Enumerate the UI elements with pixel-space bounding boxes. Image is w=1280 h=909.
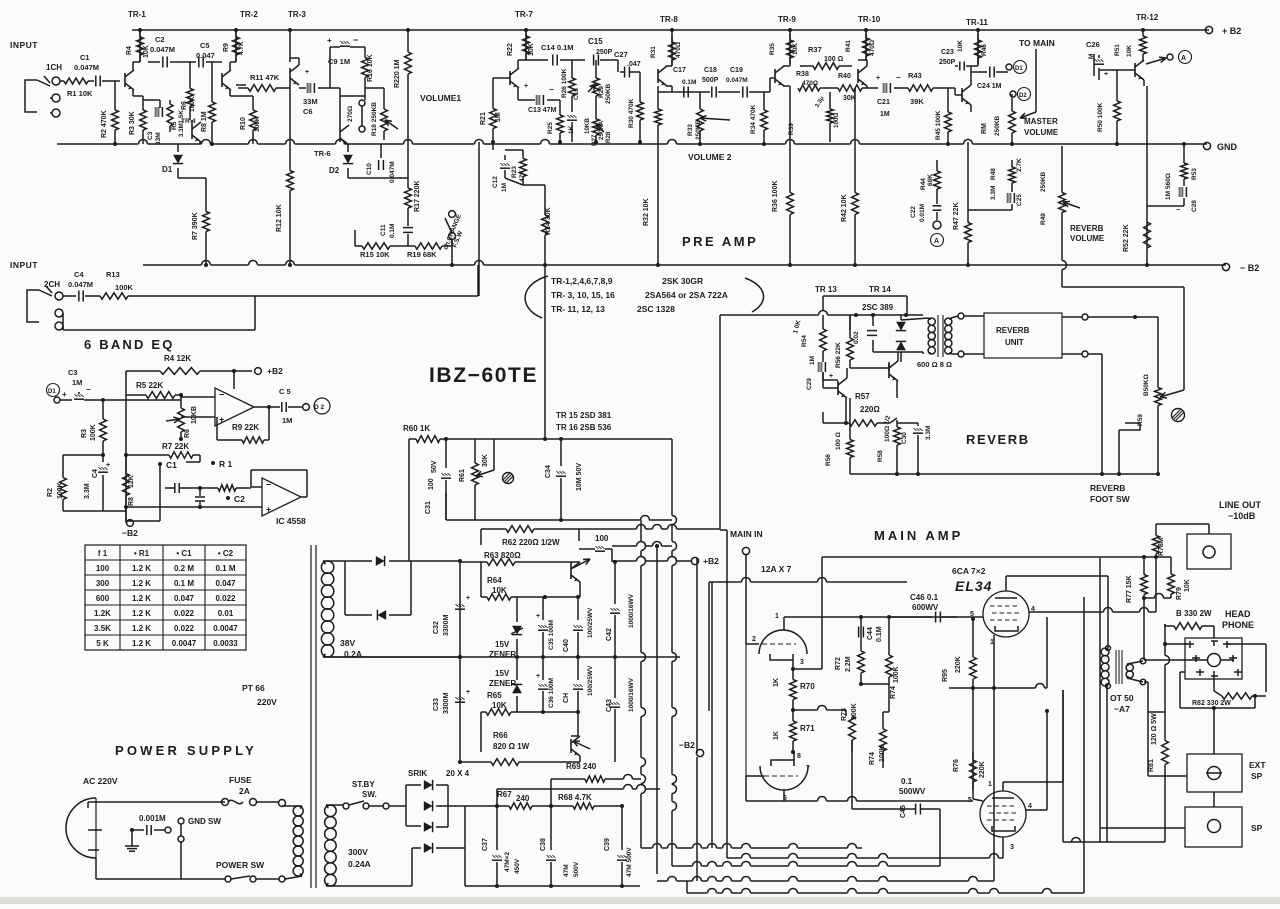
wire opamp2 feedback xyxy=(251,469,307,471)
svg-text:+: + xyxy=(466,595,470,602)
wire reverb top rail xyxy=(720,314,819,316)
svg-text:10K: 10K xyxy=(1184,579,1191,592)
svg-text:ZENER: ZENER xyxy=(489,679,516,688)
svg-text:R27: R27 xyxy=(591,134,598,146)
svg-text:R63 820Ω: R63 820Ω xyxy=(484,551,521,560)
svg-text:R42 10K: R42 10K xyxy=(841,194,848,222)
svg-text:15V: 15V xyxy=(495,640,510,649)
svg-text:1CH: 1CH xyxy=(46,63,62,72)
capacitor C14 0.1M xyxy=(526,59,548,61)
wire tr15 bottom rail xyxy=(446,519,640,521)
wire stby to diodes xyxy=(389,805,406,807)
capacitor C6 33M xyxy=(299,87,306,89)
svg-text:IBZ−60TE: IBZ−60TE xyxy=(429,364,538,387)
svg-text:R34 470K: R34 470K xyxy=(750,104,757,134)
svg-text:TR-10: TR-10 xyxy=(858,15,881,24)
svg-text:R15 10K: R15 10K xyxy=(360,250,390,259)
wire 12ax7a pin3 xyxy=(792,660,794,669)
capacitor C29 1M xyxy=(822,358,824,362)
svg-text:12K: 12K xyxy=(128,475,135,488)
svg-text:30K: 30K xyxy=(482,454,489,467)
resistor R38 470ohm xyxy=(789,86,791,92)
svg-text:C44: C44 xyxy=(867,627,874,640)
wire ot50 secondary right xyxy=(1144,659,1196,661)
resistor R34 470K xyxy=(763,92,765,98)
svg-text:+B2: +B2 xyxy=(703,556,719,566)
capacitor C9 1M xyxy=(330,46,340,48)
svg-text:VOLUME 2: VOLUME 2 xyxy=(688,152,732,162)
svg-text:120 Ω 5W: 120 Ω 5W xyxy=(1151,713,1158,745)
svg-text:POWER SUPPLY: POWER SUPPLY xyxy=(115,743,257,758)
svg-text:R6: R6 xyxy=(184,429,191,438)
label SP box xyxy=(1185,807,1242,847)
svg-text:D1: D1 xyxy=(48,389,56,395)
svg-text:SP: SP xyxy=(1251,771,1263,781)
svg-text:C25: C25 xyxy=(1016,194,1023,206)
resistor R4 10K xyxy=(139,30,141,37)
svg-text:C1: C1 xyxy=(166,460,177,470)
svg-text:220V: 220V xyxy=(257,697,277,707)
svg-text:EXT: EXT xyxy=(1249,760,1266,770)
svg-text:250KB: 250KB xyxy=(994,115,1001,136)
svg-text:UNIT: UNIT xyxy=(1005,338,1024,347)
wire main-in drop xyxy=(745,555,747,644)
svg-text:R220 1M: R220 1M xyxy=(394,59,401,88)
zener 15V #2 xyxy=(516,657,518,680)
svg-text:TR-12: TR-12 xyxy=(1136,13,1159,22)
wire x479 long vertical xyxy=(478,142,480,265)
svg-text:0.01M: 0.01M xyxy=(919,204,926,222)
svg-text:0.047: 0.047 xyxy=(215,579,236,588)
svg-text:R67: R67 xyxy=(497,790,512,799)
resistor R95 220K xyxy=(972,648,974,657)
svg-text:R82 330 2W: R82 330 2W xyxy=(1192,700,1231,707)
svg-text:INPUT: INPUT xyxy=(10,40,38,50)
wire R77 junction xyxy=(1144,597,1155,599)
svg-text:0.24A: 0.24A xyxy=(348,859,371,869)
svg-text:2.2M: 2.2M xyxy=(845,656,852,672)
svg-text:100 Ω: 100 Ω xyxy=(835,432,842,450)
svg-text:R44: R44 xyxy=(920,178,927,190)
svg-text:R95: R95 xyxy=(942,669,949,682)
svg-text:100 Ω: 100 Ω xyxy=(824,56,844,63)
svg-text:R68 4.7K: R68 4.7K xyxy=(558,793,592,802)
node R1 eq xyxy=(211,461,215,465)
svg-text:C21: C21 xyxy=(877,99,890,106)
resistor R48 3.3M xyxy=(1011,160,1013,167)
svg-text:33M: 33M xyxy=(303,97,318,106)
potentiometer R61 30K xyxy=(474,439,476,455)
diode rect2 xyxy=(344,561,346,615)
jack J2 xyxy=(27,290,39,322)
resistor R2 100K eq xyxy=(63,454,103,456)
svg-text:TR-7: TR-7 xyxy=(515,10,533,19)
terminal +B2 main xyxy=(691,557,698,564)
svg-text:R33: R33 xyxy=(687,124,694,136)
terminal -B2 main xyxy=(696,749,703,756)
svg-text:470Ω: 470Ω xyxy=(802,80,818,87)
svg-text:47M: 47M xyxy=(563,864,570,877)
terminal -B2 eq xyxy=(127,520,134,527)
svg-text:240: 240 xyxy=(516,794,530,803)
wire R60 left down xyxy=(408,439,410,561)
svg-text:+: + xyxy=(829,373,833,380)
svg-text:1.2 K: 1.2 K xyxy=(132,609,151,618)
wire 2ch ground xyxy=(62,313,64,330)
svg-text:R25: R25 xyxy=(547,122,554,134)
svg-text:R13: R13 xyxy=(106,270,120,279)
svg-text:+: + xyxy=(62,390,67,399)
wire sp2 feed xyxy=(1100,827,1185,829)
capacitor 0.02 xyxy=(872,315,874,326)
resistor R28 250KA pot xyxy=(595,108,597,112)
svg-text:TR 16 2SB 536: TR 16 2SB 536 xyxy=(556,423,612,432)
svg-text:R73: R73 xyxy=(841,708,848,721)
svg-text:D1: D1 xyxy=(1015,66,1023,72)
svg-text:• C2: • C2 xyxy=(218,549,234,558)
resistor R76 220K xyxy=(972,752,974,760)
terminal fuse right xyxy=(279,800,286,807)
line out box xyxy=(1187,534,1231,569)
capacitor C18 500P xyxy=(711,87,713,98)
switch ch.CHANGE FSW xyxy=(449,211,456,218)
svg-text:0.047M: 0.047M xyxy=(389,161,396,183)
wire sp feed xyxy=(1147,712,1149,776)
svg-text:1M: 1M xyxy=(72,378,82,387)
svg-text:C37: C37 xyxy=(482,838,489,851)
svg-text:10K: 10K xyxy=(1126,45,1133,57)
svg-text:HEAD: HEAD xyxy=(1225,609,1251,619)
resistor R52 22K xyxy=(1146,86,1148,265)
wire harness v5 xyxy=(711,582,713,848)
potentiometer R18 250KB xyxy=(364,88,366,100)
svg-text:R31: R31 xyxy=(650,46,657,58)
svg-text:−: − xyxy=(549,85,554,94)
tube 12AX7 upper half xyxy=(759,630,807,654)
svg-text:6CA 7×2: 6CA 7×2 xyxy=(952,566,986,576)
svg-text:R5: R5 xyxy=(171,121,178,130)
wire hp to ext sp xyxy=(1213,708,1215,754)
resistor R58 100 xyxy=(896,390,898,398)
resistor R25 1K xyxy=(559,100,561,106)
svg-text:ST.BY: ST.BY xyxy=(352,780,375,789)
resistor R3 30K xyxy=(142,96,144,110)
svg-text:R23: R23 xyxy=(511,166,518,178)
svg-text:100Ω: 100Ω xyxy=(884,426,891,442)
svg-text:C46 0.1: C46 0.1 xyxy=(910,593,939,602)
svg-text:D1: D1 xyxy=(162,165,173,174)
resistor R8 12K eq xyxy=(125,455,127,462)
svg-text:R56: R56 xyxy=(825,454,832,466)
resistor R78 1M xyxy=(1155,530,1157,536)
svg-text:3300M: 3300M xyxy=(443,692,450,714)
svg-text:0.0047: 0.0047 xyxy=(213,624,238,633)
capacitor C38 47M 500V xyxy=(550,806,552,850)
svg-text:−: − xyxy=(266,480,271,490)
svg-text:TR- 3, 10, 15, 16: TR- 3, 10, 15, 16 xyxy=(551,290,615,300)
svg-text:R3 30K: R3 30K xyxy=(129,111,136,135)
svg-text:0.001M: 0.001M xyxy=(139,814,166,823)
wire harness v3 xyxy=(656,546,658,874)
svg-text:REVERB: REVERB xyxy=(1070,224,1104,233)
svg-text:+: + xyxy=(1104,71,1108,78)
transistor TR14 sym xyxy=(888,364,890,378)
svg-text:R19 68K: R19 68K xyxy=(407,250,437,259)
wire reverb unit conns xyxy=(951,316,958,318)
svg-text:+: + xyxy=(536,613,540,620)
wire TR-8 col xyxy=(671,65,673,67)
svg-text:R9 22K: R9 22K xyxy=(232,423,259,432)
svg-text:C18: C18 xyxy=(704,67,717,74)
svg-text:0.047: 0.047 xyxy=(174,594,195,603)
svg-text:−10dB: −10dB xyxy=(1228,511,1256,521)
svg-text:R35: R35 xyxy=(769,43,776,55)
svg-text:1M: 1M xyxy=(501,183,508,192)
capacitor C2 xyxy=(139,29,141,31)
svg-text:.047: .047 xyxy=(627,61,641,68)
resistor R72 2.2M xyxy=(860,617,862,640)
svg-text:• R1: • R1 xyxy=(134,549,150,558)
capacitor C25 2.7K xyxy=(1011,190,1013,192)
transformer OT50 xyxy=(1101,648,1109,656)
svg-text:4: 4 xyxy=(1028,803,1032,810)
svg-text:R78M: R78M xyxy=(1158,537,1165,556)
svg-text:220Ω: 220Ω xyxy=(860,405,880,414)
capacitor C24 1M xyxy=(971,71,987,73)
svg-text:2SC 389: 2SC 389 xyxy=(862,303,894,312)
wire 12ax7b grid2 xyxy=(745,644,747,776)
wire el34a pin4 xyxy=(1029,611,1104,613)
svg-text:0.01: 0.01 xyxy=(218,609,234,618)
wire el34a pin5 grid xyxy=(957,616,983,618)
svg-text:270Ω: 270Ω xyxy=(347,106,354,122)
capacitor C19 0.047M xyxy=(742,87,744,98)
svg-text:8: 8 xyxy=(797,753,801,760)
opamp U1b IC4558 xyxy=(262,478,301,516)
svg-text:C9 1M: C9 1M xyxy=(328,57,350,66)
foot sw pedal xyxy=(1119,423,1140,430)
svg-text:R65: R65 xyxy=(487,691,502,700)
wire to-main arrow xyxy=(1035,49,1037,112)
svg-text:12A X 7: 12A X 7 xyxy=(761,564,792,574)
capacitor C13 47M xyxy=(517,96,519,100)
svg-text:TR- 11, 12, 13: TR- 11, 12, 13 xyxy=(551,304,605,314)
svg-text:2A: 2A xyxy=(239,786,250,796)
svg-text:0.047M: 0.047M xyxy=(74,63,99,72)
wire 12ax7a pin1 xyxy=(783,617,785,630)
svg-text:C16: C16 xyxy=(573,88,580,100)
svg-text:450V: 450V xyxy=(514,858,521,874)
capacitor C1 xyxy=(88,80,94,82)
capacitor C15 250P xyxy=(593,55,595,66)
svg-text:3.3M: 3.3M xyxy=(925,426,932,440)
svg-text:D2: D2 xyxy=(1019,93,1027,99)
svg-text:C15: C15 xyxy=(588,37,603,46)
wire el34a plate xyxy=(1005,576,1007,591)
svg-text:2.7K: 2.7K xyxy=(1016,158,1023,172)
resistor R37 100ohm xyxy=(800,65,813,67)
resistor R41 470ohm xyxy=(865,30,867,60)
diode SRIK 4 xyxy=(326,885,412,887)
wire TR-1 collector to top bus xyxy=(139,30,141,62)
svg-text:R2: R2 xyxy=(47,488,54,497)
svg-text:R53: R53 xyxy=(1191,168,1198,180)
diode SRIK 3 xyxy=(424,822,433,832)
resistor R32 10K xyxy=(657,92,659,109)
svg-text:3300M: 3300M xyxy=(443,614,450,636)
svg-text:R17 220K: R17 220K xyxy=(414,180,421,212)
svg-text:PHONE: PHONE xyxy=(1222,620,1254,630)
svg-text:R81: R81 xyxy=(1148,759,1155,772)
svg-text:300V: 300V xyxy=(348,847,368,857)
svg-text:C10: C10 xyxy=(366,163,373,175)
svg-text:A: A xyxy=(1181,55,1186,62)
wire bottom rail 866 xyxy=(672,865,693,867)
resistor R6 100K xyxy=(189,62,191,75)
tube EL34 lower xyxy=(980,791,1026,837)
wire 12ax7b pin7 xyxy=(793,752,795,760)
resistor R47 22K xyxy=(967,200,969,223)
svg-text:C11: C11 xyxy=(380,224,387,236)
svg-text:R29: R29 xyxy=(598,86,605,98)
resistor R8 1M xyxy=(211,62,213,80)
svg-text:100Ω: 100Ω xyxy=(833,113,840,128)
resistor R74 100K upper xyxy=(888,617,890,648)
svg-text:0.047M: 0.047M xyxy=(68,280,93,289)
svg-text:100K: 100K xyxy=(90,424,97,441)
capacitor C27 0.47 xyxy=(624,67,626,78)
svg-text:0.0047: 0.0047 xyxy=(172,639,197,648)
svg-text:D 2: D 2 xyxy=(314,404,325,411)
capacitor C40 xyxy=(577,597,579,620)
svg-text:GND SW: GND SW xyxy=(188,817,221,826)
svg-text:0.1 M: 0.1 M xyxy=(215,564,235,573)
svg-text:R49: R49 xyxy=(1040,213,1047,225)
capacitor eq fb xyxy=(159,464,161,521)
wire right risers xyxy=(1062,690,1064,842)
svg-text:C43: C43 xyxy=(606,699,613,712)
resistor R81 120ohm 5W xyxy=(1164,730,1166,741)
svg-text:0.1 M: 0.1 M xyxy=(174,579,194,588)
resistor R21 1M xyxy=(493,77,500,79)
svg-text:600 Ω 8 Ω: 600 Ω 8 Ω xyxy=(917,360,952,369)
svg-text:−: − xyxy=(219,390,224,400)
svg-text:R18 250KB: R18 250KB xyxy=(371,102,378,136)
svg-text:C31: C31 xyxy=(425,501,432,514)
resistor R30 470K xyxy=(639,72,641,80)
svg-text:600: 600 xyxy=(96,594,110,603)
svg-text:TR-8: TR-8 xyxy=(660,15,678,24)
terminal A lower xyxy=(933,221,941,229)
capacitor C3a electrolytic xyxy=(143,99,160,101)
svg-text:7: 7 xyxy=(806,765,810,772)
wire D1 row xyxy=(177,176,179,178)
svg-text:1: 1 xyxy=(775,613,779,620)
svg-text:220K: 220K xyxy=(955,656,962,673)
resistor R12 10K xyxy=(289,96,291,171)
svg-text:SRIK: SRIK xyxy=(408,769,427,778)
svg-text:A: A xyxy=(934,238,939,245)
svg-text:C29: C29 xyxy=(806,378,813,390)
svg-text:C23: C23 xyxy=(941,49,954,56)
switch 270ohm xyxy=(359,100,365,106)
svg-text:10K: 10K xyxy=(792,43,799,55)
junction dots GND bus xyxy=(113,142,117,146)
svg-text:C6: C6 xyxy=(303,107,313,116)
svg-text:TR-1: TR-1 xyxy=(128,10,146,19)
svg-text:100K: 100K xyxy=(115,283,134,292)
headphone jack box xyxy=(1185,638,1242,679)
svg-text:2SC 1328: 2SC 1328 xyxy=(637,304,675,314)
capacitor C42 1000/16WV xyxy=(614,562,616,604)
wire +B2 top bus xyxy=(132,29,1209,31)
terminal +B2 eq xyxy=(255,368,262,375)
wire r67 bypass xyxy=(497,788,624,790)
ground symbol xyxy=(131,830,133,842)
svg-text:250KB: 250KB xyxy=(695,119,702,140)
svg-text:−B2: −B2 xyxy=(679,740,695,750)
svg-text:100: 100 xyxy=(96,564,110,573)
svg-text:500P: 500P xyxy=(702,77,719,84)
wire C9 left drop xyxy=(329,47,331,88)
transistor TR16 xyxy=(570,739,572,753)
svg-text:TR-3: TR-3 xyxy=(288,10,306,19)
resistor R26 100K xyxy=(571,60,573,66)
resistor R70 1K xyxy=(792,669,794,680)
svg-text:R51: R51 xyxy=(1114,44,1121,56)
wire opamp1 out xyxy=(254,406,280,408)
wire line out link xyxy=(1156,523,1209,525)
svg-text:220K: 220K xyxy=(979,761,986,778)
svg-text:1K: 1K xyxy=(773,731,780,740)
svg-text:15V: 15V xyxy=(495,669,510,678)
svg-text:470Ω: 470Ω xyxy=(869,40,876,56)
svg-text:+: + xyxy=(327,36,332,45)
svg-text:R56 22K: R56 22K xyxy=(835,342,842,368)
opamp U1a xyxy=(215,388,254,426)
wire harness v2 xyxy=(671,439,673,516)
svg-text:TR-4: TR-4 xyxy=(181,118,196,125)
svg-text:1.2 K: 1.2 K xyxy=(132,564,151,573)
svg-text:VOLUME: VOLUME xyxy=(1024,128,1059,137)
wire hp left vertical xyxy=(1164,624,1166,656)
capacitor C10 xyxy=(378,160,380,170)
table f1 R1 C1 C2 xyxy=(85,545,246,650)
capacitor C33 3300M xyxy=(459,657,461,762)
wire riser x478 xyxy=(477,265,479,296)
svg-text:C22: C22 xyxy=(910,206,917,218)
svg-text:250KB: 250KB xyxy=(1040,171,1047,192)
svg-text:MASTER: MASTER xyxy=(1024,117,1058,126)
diode D2 xyxy=(347,145,349,152)
svg-text:+: + xyxy=(106,462,110,469)
svg-text:TR-9: TR-9 xyxy=(778,15,796,24)
svg-text:0.022: 0.022 xyxy=(174,609,195,618)
capacitor C37 47Mx2 450V xyxy=(496,806,498,850)
svg-text:REVERB: REVERB xyxy=(966,432,1030,447)
svg-text:R36 100K: R36 100K xyxy=(772,180,779,212)
svg-text:1M: 1M xyxy=(282,416,292,425)
wire harness v1 xyxy=(640,520,642,542)
svg-text:REVERB: REVERB xyxy=(996,326,1030,335)
wire mid column x545 down xyxy=(544,296,546,439)
potentiometer B50K xyxy=(1157,386,1159,388)
svg-text:C28: C28 xyxy=(1191,200,1198,212)
svg-text:R8 1M: R8 1M xyxy=(201,111,208,132)
resistor R5 1.5K xyxy=(169,100,171,104)
svg-text:R22: R22 xyxy=(507,43,514,56)
svg-text:0.1M: 0.1M xyxy=(389,224,396,238)
